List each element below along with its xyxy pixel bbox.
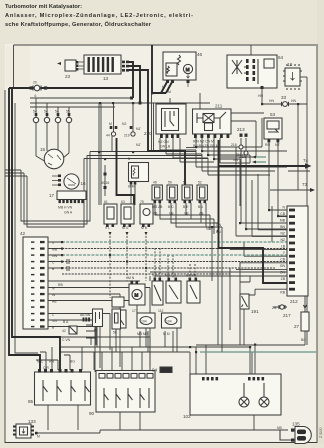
svg-text:44: 44 [106, 134, 110, 138]
svg-text:RB: RB [280, 291, 285, 295]
svg-text:RN: RN [49, 360, 54, 364]
svg-text:NZ GN: NZ GN [158, 140, 169, 144]
svg-text:B C: B C [168, 205, 174, 209]
svg-text:MB ZB: MB ZB [152, 205, 163, 209]
svg-text:NZ: NZ [136, 143, 141, 147]
svg-text:VN: VN [52, 319, 57, 323]
svg-text:M C: M C [37, 360, 44, 364]
svg-text:53: 53 [270, 112, 276, 117]
svg-text:75: 75 [140, 200, 144, 204]
svg-text:GN A: GN A [64, 211, 73, 215]
svg-text:58: 58 [113, 331, 117, 335]
svg-text:112: 112 [158, 309, 164, 313]
svg-text:M: M [168, 90, 171, 94]
svg-text:M B: M B [141, 226, 148, 230]
svg-text:64: 64 [278, 55, 284, 60]
svg-text:133: 133 [28, 419, 36, 424]
svg-text:ZB: ZB [272, 306, 277, 310]
svg-text:74: 74 [303, 158, 309, 163]
svg-text:HN: HN [269, 99, 274, 103]
svg-text:Anlasser, Microplex-Zündanlag: Anlasser, Microplex-Zündanlage, LE2-Jetr… [5, 13, 193, 19]
svg-text:6: 6 [35, 94, 37, 98]
svg-text:46: 46 [197, 52, 203, 57]
svg-text:AB BN: AB BN [80, 313, 91, 317]
svg-text:ZB: ZB [281, 277, 286, 281]
svg-text:90: 90 [89, 411, 95, 416]
svg-text:GN: GN [216, 223, 222, 227]
svg-text:16: 16 [81, 181, 87, 186]
svg-text:MB H VN: MB H VN [58, 206, 73, 210]
svg-text:BG: BG [301, 338, 306, 342]
svg-text:Z 3000: Z 3000 [319, 427, 323, 438]
svg-text:N2: N2 [122, 122, 126, 126]
svg-text:217: 217 [283, 313, 291, 318]
svg-text:MB MB: MB MB [137, 332, 149, 336]
svg-text:61: 61 [104, 200, 108, 204]
svg-text:54: 54 [33, 110, 37, 114]
svg-text:212: 212 [290, 299, 298, 304]
svg-text:104: 104 [166, 320, 172, 324]
svg-text:33: 33 [281, 95, 287, 100]
svg-text:218: 218 [231, 143, 237, 147]
svg-text:M: M [186, 67, 190, 72]
svg-text:C VN: C VN [62, 338, 71, 342]
svg-text:M: M [109, 122, 112, 126]
svg-text:Ø216: Ø216 [101, 181, 109, 185]
svg-text:CB: CB [280, 258, 285, 262]
svg-text:104: 104 [141, 320, 147, 324]
svg-text:M: M [162, 85, 165, 89]
svg-text:27: 27 [294, 324, 300, 329]
svg-text:CB: CB [280, 212, 285, 216]
svg-text:NZ: NZ [280, 232, 285, 236]
svg-text:42: 42 [62, 329, 66, 333]
svg-text:135: 135 [292, 422, 300, 427]
svg-text:NZ: NZ [136, 127, 141, 131]
svg-text:RN: RN [265, 143, 270, 147]
svg-text:AB: AB [52, 300, 57, 304]
svg-text:191: 191 [251, 309, 259, 314]
svg-text:N N: N N [152, 274, 158, 278]
svg-text:M N: M N [128, 276, 135, 280]
svg-text:51: 51 [183, 181, 187, 185]
svg-text:NB: NB [277, 426, 282, 430]
svg-text:15: 15 [40, 147, 46, 152]
svg-text:GN LB: GN LB [160, 145, 171, 149]
svg-text:219: 219 [124, 134, 130, 138]
svg-text:ZB: ZB [153, 212, 158, 216]
svg-text:94: 94 [152, 368, 158, 373]
svg-text:219: 219 [236, 153, 242, 157]
svg-text:61: 61 [94, 328, 98, 332]
svg-text:GN: GN [52, 254, 58, 258]
svg-text:VB: VB [206, 227, 211, 231]
svg-text:BN: BN [280, 225, 285, 229]
svg-text:85: 85 [28, 399, 34, 404]
svg-text:M: M [37, 435, 40, 439]
svg-text:C R: C R [43, 366, 49, 370]
svg-text:BG: BG [70, 360, 75, 364]
svg-text:HN: HN [291, 99, 296, 103]
svg-text:54: 54 [44, 110, 48, 114]
svg-text:49: 49 [153, 181, 157, 185]
svg-text:23: 23 [65, 74, 71, 79]
svg-text:42: 42 [20, 231, 26, 236]
svg-text:102: 102 [183, 414, 191, 419]
svg-text:13: 13 [103, 76, 109, 81]
svg-text:50: 50 [168, 181, 172, 185]
svg-text:17: 17 [49, 193, 55, 198]
svg-text:210: 210 [144, 131, 152, 136]
svg-text:V L: V L [105, 226, 110, 230]
svg-text:63: 63 [121, 200, 125, 204]
svg-text:ZB: ZB [199, 212, 204, 216]
svg-text:B E: B E [183, 205, 189, 209]
svg-text:sche Kraftstoffpumpe, Generato: sche Kraftstoffpumpe, Generator, Öldruck… [5, 21, 152, 28]
svg-text:HN: HN [258, 94, 263, 98]
svg-text:54: 54 [55, 110, 59, 114]
svg-text:M M: M M [163, 332, 170, 336]
svg-text:MB CB: MB CB [165, 274, 176, 278]
svg-text:MB: MB [280, 219, 286, 223]
svg-text:HZ BV: HZ BV [186, 274, 197, 278]
svg-text:Ø M: Ø M [128, 185, 135, 189]
svg-text:VB: VB [184, 212, 189, 216]
svg-text:M: M [135, 293, 139, 298]
svg-text:MB: MB [52, 248, 58, 252]
svg-text:Z: Z [52, 313, 54, 317]
svg-text:VB: VB [169, 212, 174, 216]
svg-text:R N NZ CN M: R N NZ CN M [193, 140, 214, 144]
svg-text:GN: GN [280, 271, 286, 275]
svg-text:177: 177 [132, 309, 138, 313]
svg-text:GN: GN [280, 264, 286, 268]
svg-text:12: 12 [287, 62, 293, 67]
svg-text:52: 52 [198, 181, 202, 185]
svg-text:BN: BN [198, 205, 203, 209]
svg-text:RB: RB [58, 283, 63, 287]
svg-text:55: 55 [66, 110, 70, 114]
svg-text:213: 213 [237, 127, 245, 132]
svg-text:NZ: NZ [275, 143, 280, 147]
svg-text:Turbomotor mit Katalysator:: Turbomotor mit Katalysator: [5, 4, 82, 10]
svg-text:NZ: NZ [280, 238, 285, 242]
svg-text:20: 20 [33, 81, 37, 85]
svg-text:211: 211 [215, 104, 223, 109]
svg-text:M G: M G [122, 226, 129, 230]
svg-text:73: 73 [302, 182, 308, 187]
svg-text:B A: B A [63, 320, 69, 324]
svg-text:LB: LB [281, 245, 286, 249]
svg-text:GN: GN [233, 158, 239, 162]
